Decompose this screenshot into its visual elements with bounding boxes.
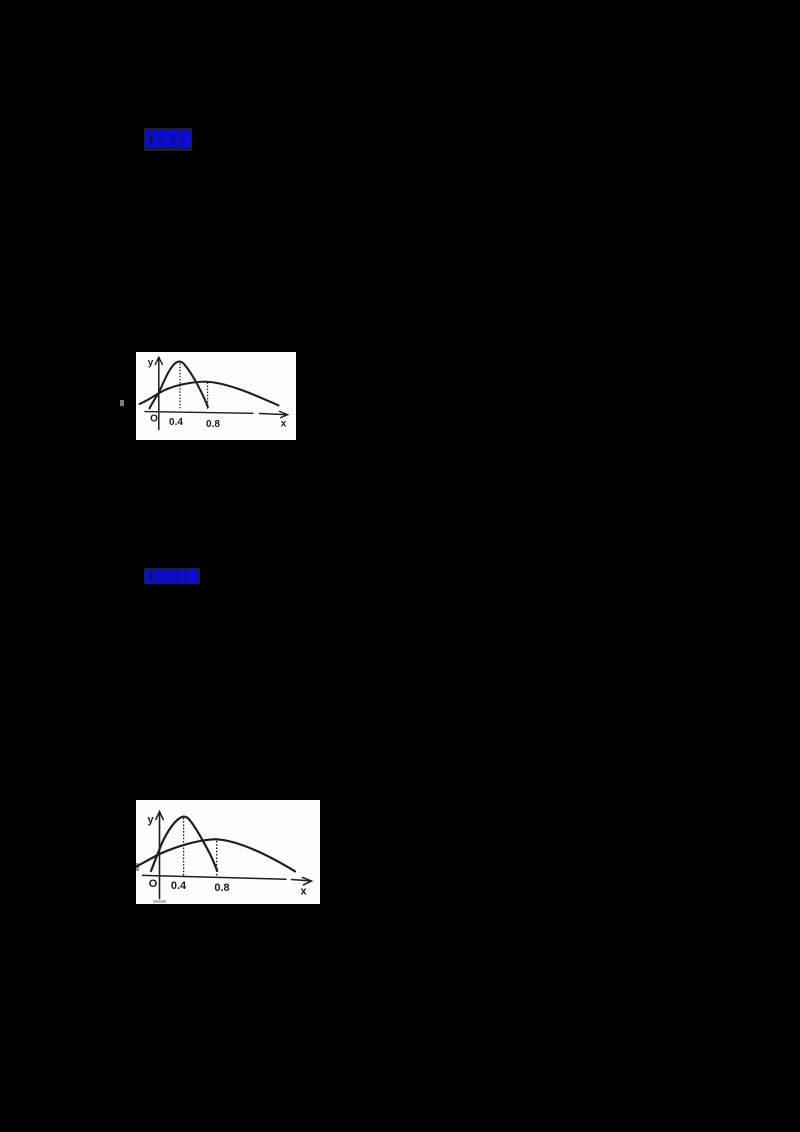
slits glyph 3 xyxy=(172,572,181,574)
svg-text:0.4: 0.4 xyxy=(171,880,187,892)
steep narrow curve peaking at 0.4 xyxy=(150,362,208,409)
bracket glyph left xyxy=(145,570,153,584)
steep narrow curve peaking at 0.4 xyxy=(151,817,217,871)
x-axis xyxy=(145,412,287,415)
wedge in right glyph xyxy=(179,133,185,146)
x-axis xyxy=(143,875,311,881)
svg-text:0.8: 0.8 xyxy=(206,419,220,430)
y-axis xyxy=(158,358,160,430)
svg-text:O: O xyxy=(149,878,158,890)
broad flat curve peaking at 0.8 xyxy=(140,382,279,406)
y-axis arrowhead xyxy=(155,357,162,364)
bracket glyph right with slash xyxy=(185,570,197,584)
svg-text:x: x xyxy=(281,419,287,430)
white panel xyxy=(136,352,296,440)
faint gray mark bottom-left xyxy=(153,900,166,903)
svg-text:0.8: 0.8 xyxy=(214,882,229,894)
slits glyph 3 xyxy=(170,135,177,136)
notch in left bracket xyxy=(150,135,154,143)
white panel xyxy=(136,800,320,904)
svg-text:y: y xyxy=(147,814,154,826)
dotted line at 0.4 xyxy=(183,819,185,877)
gray smudge at left edge xyxy=(136,863,139,871)
wedge in right glyph xyxy=(184,572,189,582)
broad flat curve peaking at 0.8 xyxy=(137,839,296,871)
dense glyph 3 xyxy=(167,130,179,148)
blue heading label 2 (【例2】) xyxy=(144,568,200,584)
svg-text:0.4: 0.4 xyxy=(169,417,183,428)
dotted line at 0.8 xyxy=(207,383,209,411)
dense glyph 2 xyxy=(154,130,166,148)
figure 2: graph of two curves (larger) xyxy=(136,800,320,904)
y-axis xyxy=(159,812,161,899)
bracket glyph right with slash xyxy=(180,130,191,148)
slits glyph 2 xyxy=(157,135,164,136)
dense glyph 3 xyxy=(169,570,184,584)
bracket glyph left xyxy=(146,130,154,148)
y-axis arrowhead xyxy=(156,812,163,820)
svg-text:y: y xyxy=(148,358,154,369)
figure 1: graph of two curves xyxy=(136,352,296,440)
dense glyph 2 xyxy=(154,570,169,584)
notch in left bracket xyxy=(149,573,153,580)
svg-text:x: x xyxy=(300,886,307,898)
svg-text:O: O xyxy=(150,414,158,425)
dotted line at 0.4 xyxy=(179,364,181,411)
slits glyph 2 xyxy=(156,573,165,574)
small gray speck left of figure 1 xyxy=(120,400,124,406)
x-axis arrowhead xyxy=(280,411,288,417)
x-axis arrowhead xyxy=(303,877,312,884)
dotted line at 0.8 xyxy=(216,842,218,878)
blue heading label 1 (【例1】) xyxy=(144,128,192,151)
